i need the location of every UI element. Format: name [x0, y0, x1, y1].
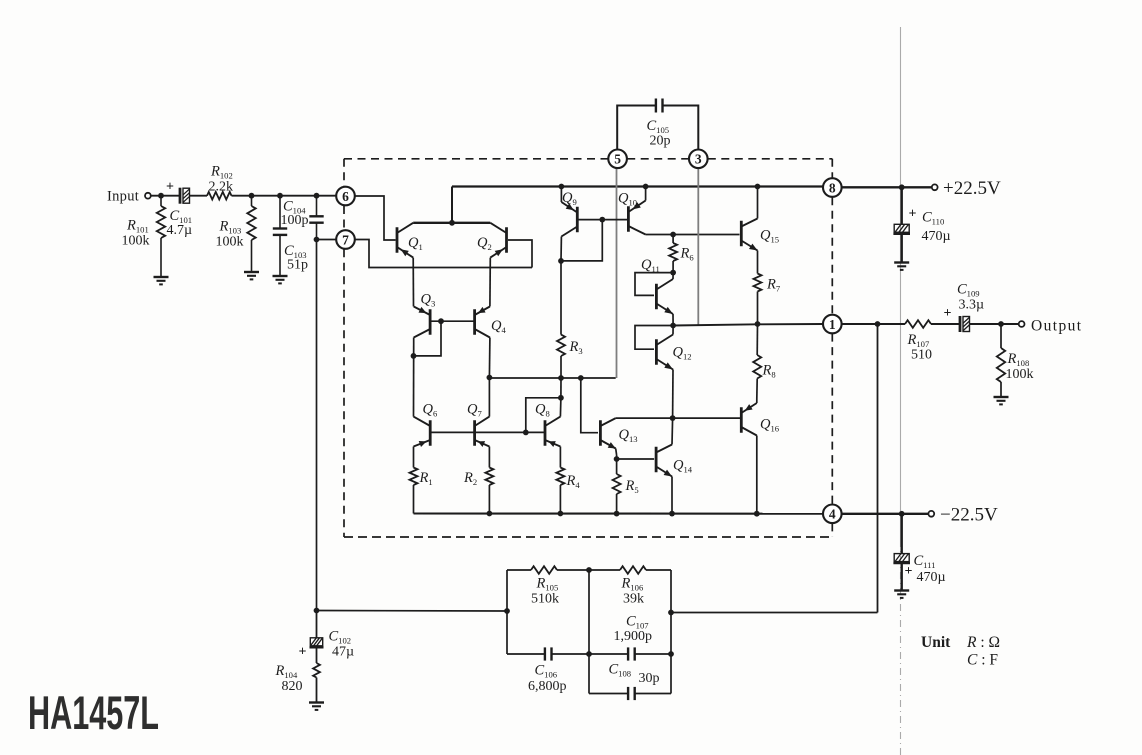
- resistor R107: [905, 320, 931, 328]
- svg-text:100k: 100k: [216, 235, 244, 250]
- R101 label: [122, 218, 150, 249]
- R102 label: [209, 164, 234, 195]
- wire NFB right vertical: [670, 570, 672, 694]
- C109 label: [957, 282, 984, 313]
- transistor Q11: [656, 279, 673, 314]
- wire C109-output: [970, 321, 1019, 327]
- Input label: [107, 189, 139, 205]
- wire Q10 collector to Q15 base: [646, 232, 740, 238]
- +22.5V label: [943, 178, 1001, 199]
- ground (R101): [154, 277, 169, 284]
- wire top rail: [452, 185, 823, 187]
- wire C101-R102: [190, 195, 207, 197]
- pin 5: [608, 150, 627, 169]
- resistor R104: [313, 663, 320, 703]
- pin 6: [336, 187, 355, 206]
- svg-text:+: +: [944, 306, 952, 321]
- capacitor C101: [180, 188, 190, 204]
- transistor Q6: [414, 417, 431, 447]
- IC package dashed boundary: [344, 159, 832, 537]
- transistor Q2: [490, 223, 506, 258]
- R105 label: [531, 576, 559, 607]
- wire Q13 base: [581, 378, 598, 433]
- pin 7: [336, 230, 355, 249]
- C105 label: [647, 118, 671, 149]
- svg-text:30p: 30p: [639, 671, 660, 686]
- node R105/R106: [586, 567, 592, 573]
- Q3 label: [421, 292, 436, 309]
- svg-text:+: +: [909, 207, 917, 222]
- Q16 label: [760, 417, 780, 434]
- wire R3 column: [560, 261, 562, 398]
- scan line artifact: [900, 27, 902, 755]
- output terminal: [1019, 321, 1025, 327]
- svg-text:1,900p: 1,900p: [614, 629, 653, 644]
- resistor R103: [247, 196, 255, 272]
- wire R107-C109: [931, 323, 959, 325]
- wire Q1/Q2 emitter rail: [413, 187, 490, 226]
- R2 label: [463, 470, 477, 487]
- resistor R5: [613, 459, 621, 514]
- ground (R108): [994, 397, 1009, 404]
- capacitor C104: [309, 196, 323, 240]
- svg-text:51p: 51p: [287, 258, 308, 273]
- svg-text:1: 1: [829, 317, 836, 332]
- C111 label: [914, 553, 946, 585]
- capacitor C103: [273, 196, 287, 276]
- C109 polarity +: [944, 306, 952, 321]
- transistor Q3: [414, 307, 430, 338]
- wire Q14 emitter stub: [671, 477, 673, 514]
- +22.5V terminal: [932, 184, 938, 190]
- Q4 label: [491, 318, 506, 335]
- transistor Q15: [741, 219, 757, 251]
- node NFB mid/bottom: [586, 651, 592, 657]
- wire Q15 collector stub: [755, 184, 761, 219]
- resistor R2: [485, 447, 493, 514]
- svg-text:510k: 510k: [531, 592, 559, 607]
- wire input node: [151, 193, 179, 199]
- svg-text:C : F: C : F: [967, 652, 998, 669]
- pin 8: [823, 178, 842, 197]
- -22.5V terminal: [928, 511, 934, 517]
- svg-text:39k: 39k: [623, 592, 644, 607]
- Q7 label: [467, 402, 482, 419]
- svg-text:+: +: [299, 645, 307, 660]
- R4 label: [566, 473, 581, 490]
- capacitor C106: [507, 647, 589, 660]
- wire Q9/Q10 base link: [577, 219, 627, 221]
- resistor R4: [556, 447, 564, 514]
- wire Q13 emitter stub: [614, 449, 620, 462]
- wire Q4 collector column: [487, 338, 493, 417]
- R106 label: [621, 576, 645, 607]
- wire Q1 collector drop: [412, 258, 414, 307]
- svg-text:47µ: 47µ: [332, 645, 354, 660]
- wire Q11 base loop: [635, 273, 673, 296]
- wire Q8 collector stub: [559, 398, 562, 417]
- R7 label: [766, 277, 781, 294]
- resistor R102: [207, 192, 232, 200]
- svg-text:100p: 100p: [281, 213, 309, 228]
- R6 label: [680, 246, 695, 263]
- wire Q12 base loop: [635, 326, 673, 350]
- svg-text:4: 4: [829, 507, 836, 522]
- resistor R101: [157, 196, 165, 277]
- C102 label: [329, 629, 355, 660]
- R8 label: [762, 363, 776, 380]
- Q8 label: [535, 402, 550, 419]
- C108 label: [609, 662, 660, 687]
- Q1 label: [408, 235, 423, 252]
- node R6/Q11: [670, 270, 676, 276]
- wire Q8 base-collector tie: [526, 395, 564, 433]
- C110 label: [922, 210, 951, 245]
- node NFB left: [504, 608, 510, 614]
- wire Q13 collector line: [616, 415, 740, 421]
- capacitor C102: [310, 611, 324, 664]
- Q11 label: [641, 257, 660, 274]
- R108 label: [1006, 351, 1034, 382]
- title HA1457L: [28, 686, 159, 739]
- C101 label: [167, 208, 193, 238]
- wire bottom rail: [414, 511, 824, 517]
- wire feedback to network: [317, 610, 508, 613]
- Q12 label: [673, 345, 692, 362]
- capacitor C105 loop: [617, 99, 698, 150]
- wire Q11 emitter stub: [672, 314, 674, 326]
- wire pin7 link: [317, 239, 337, 241]
- svg-text:7: 7: [342, 232, 349, 247]
- capacitor C109: [960, 316, 970, 332]
- resistor R106: [589, 566, 671, 574]
- svg-text:20p: 20p: [650, 134, 671, 149]
- svg-text:470µ: 470µ: [917, 570, 946, 585]
- ground (C110): [894, 263, 909, 270]
- wire feedback drop: [316, 240, 318, 611]
- wire NFB left vertical: [506, 570, 508, 654]
- svg-text:−22.5V: −22.5V: [940, 505, 998, 526]
- wire NFB to output node: [671, 324, 878, 613]
- wire Q9 emitter stub: [559, 184, 565, 202]
- node NFB out: [668, 610, 674, 616]
- svg-text:6: 6: [342, 189, 349, 204]
- Q2 label: [477, 235, 492, 252]
- resistor R105: [507, 566, 589, 574]
- R1 label: [419, 470, 433, 487]
- ground (R104): [309, 703, 324, 710]
- ground (C111): [894, 591, 909, 598]
- svg-text:8: 8: [829, 180, 836, 195]
- capacitor C108: [589, 687, 671, 700]
- C104 label: [281, 199, 309, 229]
- transistor Q4: [475, 307, 490, 338]
- node pin7 tap: [314, 237, 320, 243]
- wire Q6/Q7/Q8 base line: [430, 430, 545, 436]
- svg-text:+: +: [905, 564, 913, 579]
- svg-text:4.7µ: 4.7µ: [167, 223, 193, 238]
- wire pin1 to R107: [842, 323, 905, 325]
- resistor R3: [557, 335, 565, 356]
- capacitor C111: [893, 514, 910, 591]
- node NFB right/bottom: [668, 651, 674, 657]
- node output rail R7/R8: [755, 321, 761, 327]
- svg-text:Unit: Unit: [921, 634, 951, 651]
- wire Q9 collector tie: [558, 217, 605, 264]
- svg-text:Output: Output: [1031, 318, 1082, 335]
- resistor R7: [754, 251, 762, 325]
- svg-text:2.2k: 2.2k: [209, 180, 234, 195]
- Q10 label: [618, 191, 637, 208]
- svg-text:3: 3: [695, 152, 702, 167]
- C102 polarity +: [299, 645, 307, 660]
- pin 1: [823, 315, 842, 334]
- transistor Q8: [545, 417, 560, 447]
- C103 label: [284, 243, 308, 273]
- Q13 label: [619, 427, 638, 444]
- wire second-stage node: [489, 375, 615, 381]
- input terminal: [145, 193, 151, 199]
- wire +22.5V rail: [842, 184, 932, 190]
- C106 label: [528, 663, 567, 695]
- wire Q3/Q4 base tie: [414, 318, 475, 356]
- wire Q16 emitter stub: [756, 399, 758, 403]
- Output label: [1031, 318, 1082, 335]
- wire R102-node: [232, 193, 281, 199]
- wire Q14 collector stub: [671, 418, 674, 444]
- wire node to pin5: [616, 168, 618, 378]
- -22.5V label: [940, 505, 998, 526]
- transistor Q14: [656, 445, 672, 477]
- resistor R6: [669, 235, 677, 273]
- wire Q3 collector column: [411, 338, 417, 417]
- wire Q10 emitter stub: [643, 184, 649, 201]
- Q6 label: [423, 402, 438, 419]
- svg-text:6,800p: 6,800p: [528, 679, 567, 694]
- svg-text:+: +: [166, 180, 174, 195]
- C107 label: [614, 614, 653, 645]
- svg-text:3.3µ: 3.3µ: [959, 298, 985, 313]
- pin 3: [689, 150, 708, 169]
- C111 polarity +: [905, 564, 913, 579]
- resistor R8: [753, 324, 761, 399]
- node Q11/Q12: [670, 323, 676, 329]
- svg-text:Input: Input: [107, 189, 139, 205]
- wire Q12 emitter drop: [672, 370, 674, 419]
- svg-text:100k: 100k: [1006, 367, 1034, 382]
- capacitor C110: [893, 187, 910, 262]
- wire pin7 to Q2 base: [355, 240, 532, 268]
- transistor Q9: [561, 202, 577, 237]
- wire node-pin6: [280, 193, 336, 199]
- C110 polarity +: [909, 207, 917, 222]
- Q15 label: [760, 228, 779, 245]
- transistor Q16: [741, 403, 757, 436]
- transistor Q10: [628, 201, 645, 235]
- wire Q11 collector stub: [672, 273, 674, 279]
- Unit annotation: [921, 634, 1000, 669]
- R103 label: [216, 219, 244, 250]
- capacitor C107: [589, 647, 671, 660]
- transistor Q12: [656, 335, 673, 370]
- R5 label: [625, 478, 639, 495]
- svg-text:R : Ω: R : Ω: [966, 634, 1000, 651]
- wire pin6 to Q1 base: [355, 196, 396, 240]
- ground (R103): [244, 272, 259, 279]
- pin 4: [823, 505, 842, 524]
- R104 label: [275, 663, 303, 694]
- wire pin3 vertical: [697, 168, 699, 325]
- capacitor C101 polarity +: [166, 180, 174, 195]
- transistor Q1: [397, 223, 413, 258]
- wire Q16 collector stub: [756, 436, 758, 514]
- Q14 label: [673, 458, 693, 475]
- wire pin1 net: [673, 324, 823, 326]
- svg-text:+22.5V: +22.5V: [943, 178, 1001, 199]
- wire -22.5V rail: [842, 511, 929, 517]
- transistor Q7: [475, 417, 490, 447]
- node C103 tap: [277, 193, 283, 199]
- svg-text:820: 820: [282, 679, 303, 694]
- node feedback tap: [314, 608, 320, 614]
- svg-text:HA1457L: HA1457L: [28, 686, 159, 739]
- svg-text:5: 5: [614, 152, 621, 167]
- wire Q13/Q14 base link: [617, 458, 655, 460]
- wire NFB mid vertical: [588, 570, 590, 694]
- svg-text:100k: 100k: [122, 234, 150, 249]
- svg-text:510: 510: [911, 348, 932, 363]
- resistor R1: [410, 447, 418, 514]
- resistor R108: [997, 324, 1005, 397]
- transistor Q13: [600, 418, 615, 448]
- svg-text:470µ: 470µ: [922, 229, 951, 244]
- ground (C103): [273, 276, 288, 283]
- R107 label: [907, 332, 933, 363]
- node feedback/output: [875, 321, 881, 327]
- Q9 label: [562, 190, 577, 207]
- wire Q12 collector stub: [672, 326, 674, 335]
- R3 label: [569, 339, 583, 356]
- wire Q2 collector drop: [489, 258, 491, 307]
